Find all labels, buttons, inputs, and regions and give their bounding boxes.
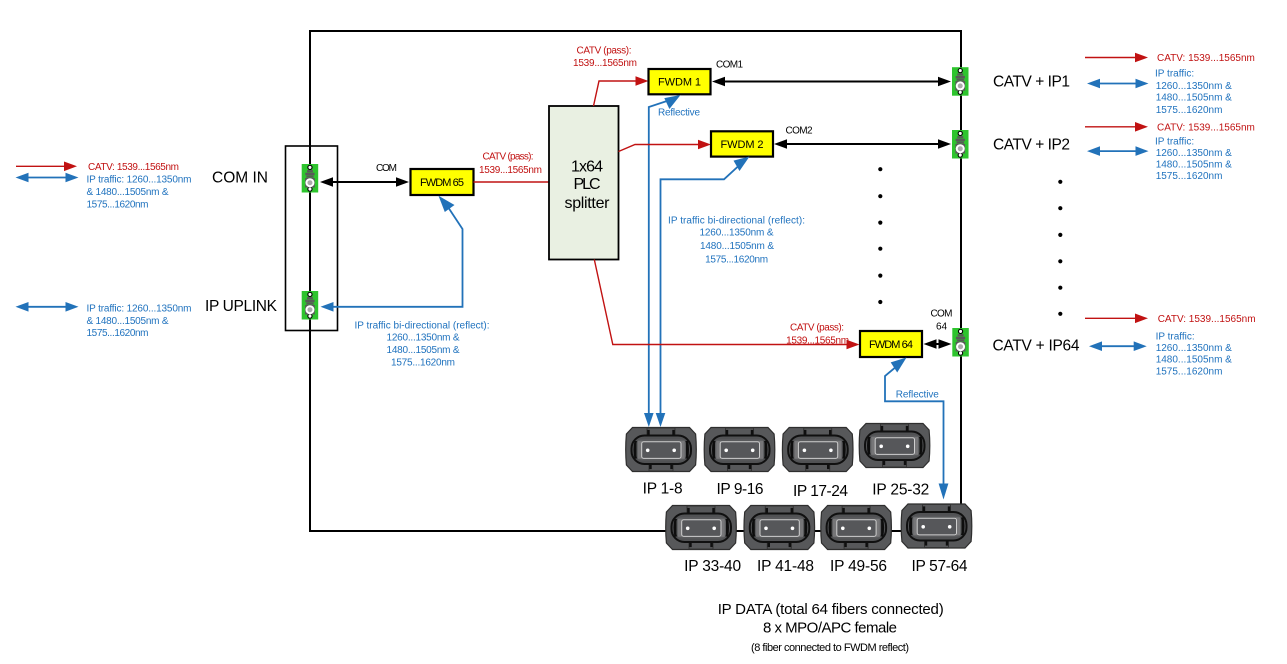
blue wire FWDM1 reflect down to IP 1-8	[644, 95, 681, 427]
dots column outer	[1058, 180, 1062, 316]
svg-text:1575...1620nm: 1575...1620nm	[1156, 367, 1223, 378]
FWDM 2	[711, 131, 773, 156]
FWDM 64	[860, 331, 922, 357]
connector IP UPLINK	[302, 291, 319, 320]
svg-text:IP 25-32: IP 25-32	[872, 482, 929, 499]
label Reflective (FWDM1)	[658, 107, 700, 118]
label CATV + IP1	[993, 74, 1070, 91]
svg-text:FWDM 1: FWDM 1	[658, 77, 701, 89]
svg-text:PLC: PLC	[574, 176, 601, 193]
svg-text:1480...1505nm &: 1480...1505nm &	[1156, 92, 1232, 103]
red label CATV pass (FWDM65)	[479, 151, 542, 176]
svg-text:1260...1350nm &: 1260...1350nm &	[700, 228, 774, 239]
svg-text:IP DATA (total 64 fibers conne: IP DATA (total 64 fibers connected)	[718, 601, 944, 618]
right row64 red arrow	[1085, 314, 1148, 324]
label IP 9-16	[717, 481, 764, 498]
1x64 PLC splitter	[549, 106, 619, 260]
svg-text:IP 9-16: IP 9-16	[717, 481, 764, 498]
wire FWDM64 to CATV+IP64 (black double arrow)	[924, 339, 952, 349]
label COM 64	[931, 308, 953, 332]
svg-text:IP traffic bi-directional (ref: IP traffic bi-directional (reflect):	[668, 215, 805, 226]
MPO connector IP 57-64	[901, 504, 972, 548]
svg-text:(8 fiber connected to FWDM ref: (8 fiber connected to FWDM reflect)	[751, 642, 909, 654]
svg-text:IP traffic:: IP traffic:	[1155, 68, 1194, 79]
svg-text:IP 17-24: IP 17-24	[793, 483, 848, 500]
right row2 red arrow	[1085, 122, 1148, 132]
svg-text:COM: COM	[376, 163, 397, 174]
svg-text:CATV (pass):: CATV (pass):	[483, 151, 534, 162]
svg-text:Reflective: Reflective	[896, 389, 939, 400]
svg-text:1575...1620nm: 1575...1620nm	[87, 199, 149, 210]
svg-text:IP traffic: 1260...1350nm: IP traffic: 1260...1350nm	[87, 174, 192, 185]
label COM IN	[212, 170, 268, 187]
blue label IP traffic bi-directional (left)	[355, 320, 490, 368]
svg-text:COM: COM	[931, 308, 953, 319]
wire COM IN to FWDM 65 (black double arrow)	[320, 177, 409, 187]
svg-text:CATV: 1539...1565nm: CATV: 1539...1565nm	[1157, 53, 1255, 64]
svg-text:1260...1350nm &: 1260...1350nm &	[387, 333, 460, 344]
right row1 blue arrow	[1087, 79, 1149, 89]
svg-text:FWDM 64: FWDM 64	[869, 339, 913, 351]
svg-text:CATV + IP1: CATV + IP1	[993, 74, 1070, 91]
label CATV + IP64	[993, 338, 1080, 355]
left IP blue double arrow	[16, 173, 79, 183]
blue wire FWDM2 reflect down to IP 1-8	[656, 157, 750, 428]
svg-text:& 1480...1505nm &: & 1480...1505nm &	[87, 187, 169, 198]
svg-text:IP traffic:: IP traffic:	[1155, 137, 1194, 148]
svg-text:1x64: 1x64	[571, 158, 603, 175]
svg-text:COM1: COM1	[716, 60, 743, 71]
right row2 red text	[1157, 122, 1255, 133]
MPO connector IP 33-40	[666, 506, 737, 550]
label IP 25-32	[872, 482, 929, 499]
right row64 blue text	[1156, 331, 1233, 377]
label IP UPLINK	[205, 298, 278, 315]
red wire splitter to FWDM64	[594, 260, 859, 350]
connector CATV+IP64	[952, 328, 969, 357]
svg-text:1575...1620nm: 1575...1620nm	[1156, 105, 1223, 116]
left CATV red arrow	[16, 162, 77, 172]
left IP UPLINK blue double arrow	[16, 302, 79, 312]
right row1 blue text	[1155, 68, 1232, 115]
svg-text:IP traffic bi-directional (ref: IP traffic bi-directional (reflect):	[355, 320, 490, 331]
svg-text:IP traffic: 1260...1350nm: IP traffic: 1260...1350nm	[87, 303, 192, 314]
svg-text:IP 57-64: IP 57-64	[912, 558, 968, 575]
svg-text:IP 1-8: IP 1-8	[643, 481, 683, 498]
svg-text:& 1480...1505nm &: & 1480...1505nm &	[87, 316, 169, 327]
left CATV red text	[88, 162, 179, 173]
COM IN / IP UPLINK panel	[286, 146, 338, 331]
svg-text:CATV (pass):: CATV (pass):	[790, 322, 844, 333]
right row2 blue arrow	[1087, 146, 1149, 156]
svg-text:IP 33-40: IP 33-40	[684, 558, 741, 575]
left IP UPLINK blue text	[87, 303, 192, 339]
label IP 1-8	[643, 481, 683, 498]
dots column inner	[878, 167, 882, 304]
right row1 red text	[1157, 53, 1255, 64]
label IP 57-64	[912, 558, 968, 575]
svg-text:CATV (pass):: CATV (pass):	[577, 45, 632, 56]
red label CATV pass (FWDM64)	[786, 322, 849, 346]
label IP 17-24	[793, 483, 848, 500]
wire FWDM2 to CATV+IP2 (black double arrow)	[774, 139, 951, 149]
blue wire FWDM65 reflect to IP UPLINK	[321, 196, 463, 312]
right row2 blue text	[1155, 137, 1232, 183]
label IP 49-56	[830, 558, 887, 575]
MPO connector IP 25-32	[859, 424, 930, 468]
svg-text:IP 49-56: IP 49-56	[830, 558, 887, 575]
svg-text:1575...1620nm: 1575...1620nm	[391, 357, 455, 368]
MPO connector IP 49-56	[821, 506, 892, 550]
svg-text:1480...1505nm &: 1480...1505nm &	[1156, 355, 1232, 366]
svg-text:1480...1505nm &: 1480...1505nm &	[387, 345, 460, 356]
svg-text:1539...1565nm: 1539...1565nm	[573, 58, 637, 69]
right row64 red text	[1158, 314, 1256, 325]
svg-text:1260...1350nm &: 1260...1350nm &	[1156, 81, 1232, 92]
connector COM IN	[302, 164, 319, 193]
label CATV + IP2	[993, 136, 1070, 153]
svg-text:1575...1620nm: 1575...1620nm	[1156, 171, 1223, 182]
wire FWDM1 to CATV+IP1 (black double arrow)	[712, 77, 951, 87]
svg-text:FWDM 65: FWDM 65	[420, 177, 464, 189]
connector CATV+IP2	[952, 130, 969, 159]
svg-text:splitter: splitter	[565, 195, 611, 212]
connector CATV+IP1	[952, 67, 969, 96]
label IP 41-48	[757, 558, 814, 575]
svg-text:IP traffic:: IP traffic:	[1156, 331, 1195, 342]
svg-text:Reflective: Reflective	[658, 107, 700, 118]
svg-text:1480...1505nm &: 1480...1505nm &	[1156, 160, 1232, 171]
svg-text:COM IN: COM IN	[212, 170, 268, 187]
FWDM 65	[411, 169, 474, 195]
svg-text:1260...1350nm &: 1260...1350nm &	[1156, 148, 1232, 159]
svg-text:IP 41-48: IP 41-48	[757, 558, 814, 575]
svg-text:CATV: 1539...1565nm: CATV: 1539...1565nm	[1158, 314, 1256, 325]
MPO connector IP 41-48	[744, 506, 815, 550]
MPO connector IP 9-16	[704, 428, 775, 472]
svg-text:1539...1565nm: 1539...1565nm	[479, 165, 542, 176]
caption IP DATA	[718, 601, 944, 654]
svg-text:FWDM 2: FWDM 2	[721, 139, 764, 151]
svg-text:CATV + IP2: CATV + IP2	[993, 136, 1070, 153]
right row64 blue arrow	[1089, 341, 1147, 351]
red wire splitter to FWDM1	[594, 76, 649, 106]
red label CATV pass (FWDM1)	[573, 45, 637, 68]
svg-text:1480...1505nm &: 1480...1505nm &	[700, 241, 774, 252]
right row1 red arrow	[1085, 53, 1148, 63]
label Reflective (FWDM64)	[896, 389, 939, 400]
svg-text:CATV: 1539...1565nm: CATV: 1539...1565nm	[1157, 122, 1255, 133]
label IP 33-40	[684, 558, 741, 575]
svg-text:IP UPLINK: IP UPLINK	[205, 298, 278, 315]
enclosure box	[310, 31, 961, 531]
FWDM 1	[649, 69, 711, 94]
svg-text:1575...1620nm: 1575...1620nm	[87, 328, 149, 339]
svg-text:1260...1350nm &: 1260...1350nm &	[1156, 343, 1232, 354]
blue wire FWDM64 reflect down to IP 57-64	[885, 358, 948, 500]
svg-text:1575...1620nm: 1575...1620nm	[705, 254, 768, 265]
svg-text:1539...1565nm: 1539...1565nm	[786, 336, 849, 347]
svg-text:COM2: COM2	[786, 125, 813, 136]
svg-text:64: 64	[936, 321, 947, 332]
label COM1	[716, 60, 743, 71]
svg-text:CATV: 1539...1565nm: CATV: 1539...1565nm	[88, 162, 179, 173]
svg-text:CATV + IP64: CATV + IP64	[993, 338, 1080, 355]
label COM	[376, 163, 397, 174]
label COM2	[786, 125, 813, 136]
MPO connector IP 17-24	[782, 428, 853, 472]
red wire splitter to FWDM2	[619, 140, 712, 152]
left IP traffic blue text	[87, 174, 192, 210]
blue label IP traffic bi-directional (center)	[668, 215, 805, 265]
svg-text:8 x MPO/APC female: 8 x MPO/APC female	[763, 620, 897, 637]
MPO connector IP 1-8	[626, 428, 697, 472]
red wire FWDM65 to splitter	[474, 181, 550, 183]
